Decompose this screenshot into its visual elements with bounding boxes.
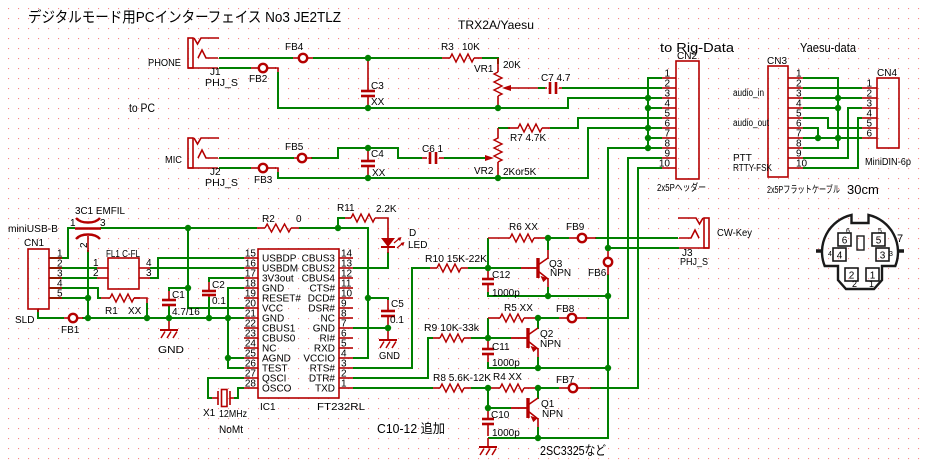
wire Q3 collector drop	[547, 240, 549, 250]
IC right pin 7 stub	[339, 327, 353, 329]
svg-text:VR1: VR1	[474, 64, 494, 75]
svg-text:1000p: 1000p	[492, 428, 520, 439]
CN2 pin 9 stub	[662, 157, 676, 159]
CN3 pin 9 stub	[788, 157, 803, 159]
wire VR2 top to R7	[498, 127, 510, 129]
CN4 pin 5 stub	[862, 127, 877, 129]
wire CN1 pin3 to FL1 pin2	[49, 277, 97, 279]
wire R8 node riser	[487, 388, 489, 408]
wire J2 tip to FB5	[219, 157, 294, 159]
wire FL1 pin3 to IC pin15	[150, 258, 244, 278]
CN4 pin 4 stub	[862, 117, 877, 119]
wire CN3 pin6 jog	[803, 128, 818, 138]
CN4 pin 6 stub	[862, 137, 877, 139]
svg-text:CN4: CN4	[877, 68, 897, 79]
IC left pin 15 stub	[244, 257, 258, 259]
IC left pin 20 stub	[244, 307, 258, 309]
wire AGND branch	[228, 357, 244, 359]
svg-text:FB2: FB2	[249, 74, 268, 85]
IC left pin 22 stub	[244, 327, 258, 329]
wire J2 sleeve to FB3	[219, 167, 251, 169]
LED D	[381, 238, 395, 247]
wire Q2 base	[488, 337, 511, 339]
connector J1 PHONE jack	[188, 38, 193, 68]
IC right pin 4 stub	[339, 357, 353, 359]
svg-text:C5: C5	[391, 299, 404, 310]
wire IC pin7 to C5 bottom	[353, 327, 388, 329]
wire IC pin1 to R8	[353, 387, 433, 389]
resistor R8	[440, 384, 464, 392]
svg-text:C2: C2	[212, 280, 225, 291]
svg-text:SLD: SLD	[15, 315, 34, 326]
IC right pin 12 stub	[339, 277, 353, 279]
wire Q3 base	[488, 267, 521, 269]
wire VR1 wiper to C7	[538, 87, 545, 89]
IC left pin 26 stub	[244, 367, 258, 369]
CN3 pin 4 stub	[788, 107, 803, 109]
svg-text:10: 10	[796, 159, 808, 170]
IC right pin 6 stub	[339, 337, 353, 339]
CN2 pin 3 stub	[662, 97, 676, 99]
capacitor C10	[482, 418, 494, 421]
junction dots	[365, 55, 371, 61]
wire R9 to Q2 base node	[471, 337, 488, 339]
svg-text:0.1: 0.1	[212, 296, 226, 307]
svg-text:J1: J1	[210, 67, 221, 78]
CN4 pin 2 stub	[862, 97, 877, 99]
IC left pin 21 stub	[244, 317, 258, 319]
svg-text:2Kor5K: 2Kor5K	[503, 167, 537, 178]
wire Q3 emitter to rail	[547, 278, 549, 288]
svg-text:J2: J2	[210, 167, 221, 178]
CN4 pin 3 stub	[862, 107, 877, 109]
ferrite bead FB4	[299, 54, 307, 62]
ground under C1	[168, 318, 170, 330]
CN2 pin 2 stub	[662, 87, 676, 89]
connector CN4 body	[877, 78, 899, 148]
CN2 pin 7 stub	[662, 137, 676, 139]
wire VR1 bottom to CN2 pin3	[564, 98, 662, 108]
potentiometer VR1	[497, 58, 499, 72]
resistor R5	[500, 314, 524, 322]
ground under C10	[487, 438, 489, 447]
connector MiniDIN-6p front view	[822, 215, 898, 289]
svg-text:IC1: IC1	[260, 402, 276, 413]
IC right pin 5 stub	[339, 347, 353, 349]
svg-text:デジタルモード用PCインターフェイス No3 JE2TLZ: デジタルモード用PCインターフェイス No3 JE2TLZ	[28, 8, 341, 26]
svg-text:C1: C1	[172, 290, 185, 301]
capacitor C12	[482, 278, 494, 281]
svg-text:FB3: FB3	[254, 175, 273, 186]
svg-text:FB1: FB1	[61, 325, 80, 336]
wire IC pin18 riser to rail and AGND TEST	[228, 288, 244, 368]
resistor R7	[518, 124, 542, 132]
CN1 SLD stub	[37, 309, 39, 312]
svg-text:FT232RL: FT232RL	[317, 402, 366, 413]
ferrite bead FB3	[259, 164, 267, 172]
svg-text:to PC: to PC	[129, 101, 155, 115]
ferrite bead FB2	[259, 64, 267, 72]
wire R1 to rail	[134, 298, 147, 304]
wire IC pin3 to R10	[353, 268, 430, 368]
svg-text:CN2: CN2	[677, 51, 697, 62]
FL1 pin2 stub	[97, 277, 108, 279]
svg-text:6: 6	[866, 129, 872, 140]
capacitor C1	[162, 299, 176, 302]
CN3 pin 1 stub	[788, 77, 803, 79]
wire Q2 emitter to rail	[537, 348, 539, 358]
IC left pin 25 stub	[244, 357, 258, 359]
svg-text:audio_in: audio_in	[733, 88, 764, 99]
wire R11 tap	[338, 218, 345, 228]
resistor R11	[351, 214, 375, 222]
wire R8 to Q1 node	[471, 387, 488, 389]
CN2 pin 1 stub	[662, 77, 676, 79]
wire Q2 collector node to FB8	[538, 317, 559, 319]
resistor R6	[510, 234, 534, 242]
svg-text:5: 5	[57, 289, 63, 300]
svg-text:0: 0	[296, 214, 302, 225]
svg-text:7: 7	[897, 233, 903, 245]
svg-text:R4 XX: R4 XX	[493, 372, 522, 383]
wire CN3 pin3 to CN4 pin2	[803, 97, 862, 99]
svg-text:PHONE: PHONE	[148, 58, 181, 69]
wire CN3 pin4 to bus	[803, 107, 838, 109]
capacitor C5	[381, 310, 395, 313]
svg-text:PHJ_S: PHJ_S	[680, 257, 708, 268]
wire C6 to VR2 wiper	[444, 157, 488, 159]
wire CN3 pin10 to CN4 pin4	[803, 118, 862, 168]
wire J1 sleeve to FB2	[219, 67, 251, 69]
svg-text:2: 2	[852, 279, 857, 289]
wire R3 to VR1	[482, 58, 498, 64]
CN2 pin 5 stub	[662, 117, 676, 119]
wire CN1 pin5 to tap	[49, 297, 88, 299]
wire Q1 collector node to FB7	[538, 387, 559, 389]
svg-text:C12: C12	[492, 270, 511, 281]
FL1 pin4 stub	[139, 267, 150, 269]
svg-text:FB9: FB9	[566, 222, 585, 233]
svg-text:PHJ_S: PHJ_S	[205, 78, 238, 89]
svg-text:GND: GND	[379, 351, 400, 362]
svg-text:RTTY-FSK: RTTY-FSK	[733, 163, 772, 174]
FL1 pin1 stub	[97, 267, 108, 269]
wire C5 top tee	[368, 298, 388, 300]
CN3 pin 8 stub	[788, 147, 803, 149]
transistor Q3	[536, 258, 539, 278]
capacitor C11	[482, 348, 494, 351]
svg-text:2SC3325など: 2SC3325など	[540, 443, 606, 458]
svg-text:R6 XX: R6 XX	[509, 222, 538, 233]
svg-text:CN3: CN3	[767, 56, 787, 67]
CN3 pin 6 stub	[788, 127, 803, 129]
svg-text:NPN: NPN	[550, 268, 571, 279]
svg-text:5: 5	[876, 236, 882, 247]
svg-text:1000p: 1000p	[492, 358, 520, 369]
wire Q1 collector drop	[537, 390, 539, 399]
connector CN2 body	[676, 61, 699, 179]
svg-text:5: 5	[878, 228, 882, 235]
svg-text:6: 6	[846, 228, 850, 235]
svg-text:C10: C10	[491, 410, 510, 421]
svg-text:D: D	[409, 228, 416, 239]
IC right pin 14 stub	[339, 257, 353, 259]
wire CN2 pin8 riser to FB6/J3	[608, 148, 662, 250]
ferrite bead FB7	[569, 384, 577, 392]
IC right pin 9 stub	[339, 307, 353, 309]
component FL1 filter body	[108, 258, 139, 289]
CN3 pin 3 stub	[788, 97, 803, 99]
wire C7 to CN2 pin2	[562, 87, 662, 89]
svg-text:C11: C11	[492, 342, 510, 353]
svg-text:R1: R1	[105, 306, 118, 317]
wire CN2 pin4 stub link	[648, 107, 662, 109]
svg-text:1: 1	[341, 379, 347, 390]
wire R7 to CN2 pin5	[550, 118, 662, 128]
IC right pin 1 stub	[339, 387, 353, 389]
CN3 pin 2 stub	[788, 87, 803, 89]
wire J1 tip to FB4	[219, 57, 293, 59]
resistor R2	[265, 224, 291, 232]
connector CN1 miniUSB-B body	[28, 249, 49, 309]
capacitor C7	[549, 82, 552, 94]
wire C1 top tee	[169, 288, 188, 291]
svg-text:Yaesu-data: Yaesu-data	[800, 40, 857, 55]
wire C1 bottom to rail	[168, 306, 170, 318]
FL1 pin3 stub	[139, 277, 150, 279]
ferrite bead FB6	[604, 258, 612, 266]
capacitor C2	[202, 290, 216, 293]
wire R2 to VCCIO riser	[299, 228, 368, 358]
wire CN3 pin7 to CN4 pin6	[803, 137, 862, 139]
wire CN3 gnd bus pins 1-8	[803, 78, 838, 148]
resistor R3	[450, 54, 474, 62]
IC left pin 16 stub	[244, 267, 258, 269]
ferrite bead FB8	[568, 314, 576, 322]
svg-text:XX: XX	[372, 168, 386, 179]
svg-text:4.7/16: 4.7/16	[172, 307, 200, 318]
svg-text:XX: XX	[128, 306, 142, 317]
svg-text:FB6: FB6	[588, 268, 607, 279]
wire ground rail to IC pin21	[82, 317, 244, 319]
wire FB6 to rails	[488, 274, 608, 438]
svg-text:TRX2A/Yaesu: TRX2A/Yaesu	[458, 18, 534, 32]
svg-text:2x5Pヘッダー: 2x5Pヘッダー	[657, 181, 706, 194]
wire J3 sleeve line	[608, 247, 679, 249]
connector CN3 body	[768, 66, 788, 177]
potentiometer VR2	[497, 128, 499, 138]
svg-text:2: 2	[93, 268, 99, 279]
resistor R9	[440, 334, 464, 342]
wire Q2 collector drop	[537, 320, 539, 329]
IC left pin 23 stub	[244, 337, 258, 339]
wire VCC riser	[188, 228, 244, 308]
wire Q3 collector node to FB9	[548, 237, 569, 239]
capacitor C4	[361, 160, 375, 163]
resistor R4	[500, 384, 524, 392]
wire CN3 pin9 to CN4 pin3	[803, 108, 862, 158]
svg-text:R9 10K-33k: R9 10K-33k	[424, 323, 480, 334]
svg-text:2: 2	[79, 242, 90, 248]
svg-text:VR2: VR2	[474, 166, 494, 177]
svg-text:to Rig-Data: to Rig-Data	[660, 40, 735, 55]
IC left pin 19 stub	[244, 297, 258, 299]
wire SLD to FB1	[38, 309, 64, 318]
wire CN2 pin7 stub link	[648, 137, 662, 139]
crystal X1	[212, 397, 218, 399]
IC U1 FT232RL body	[258, 249, 339, 398]
IC right pin 3 stub	[339, 367, 353, 369]
svg-text:30cm: 30cm	[847, 182, 879, 197]
svg-text:12MHz: 12MHz	[219, 409, 247, 420]
wire FB2 to C3 bottom node	[275, 68, 278, 73]
wire R6 left riser	[487, 238, 489, 268]
svg-text:FB5: FB5	[285, 142, 304, 153]
svg-text:R11: R11	[337, 203, 355, 214]
CN1 pin 4 stub	[49, 287, 62, 289]
CN1 pin 1 stub	[49, 257, 62, 259]
CN2 pin 6 stub	[662, 127, 676, 129]
wire CN1 pin4 to R1	[49, 288, 101, 298]
wire FL1 pin4 to IC pin16	[150, 267, 244, 269]
svg-text:3: 3	[880, 251, 886, 262]
svg-text:FB4: FB4	[285, 42, 304, 53]
svg-text:1: 1	[70, 218, 76, 229]
IC right pin 10 stub	[339, 297, 353, 299]
svg-text:X1: X1	[203, 408, 216, 419]
svg-text:4: 4	[837, 251, 843, 262]
svg-text:3: 3	[100, 218, 106, 229]
capacitor C3	[361, 90, 375, 93]
wire R10 to Q3 base node	[468, 267, 488, 269]
wire EMI filter tap down	[87, 250, 89, 318]
CN1 pin 5 stub	[49, 297, 62, 299]
wire X1 left to IC pin27	[208, 378, 244, 398]
svg-text:C10-12 追加: C10-12 追加	[377, 421, 445, 436]
svg-text:4: 4	[828, 251, 832, 258]
svg-text:1000p: 1000p	[492, 288, 520, 299]
IC left pin 28 stub	[244, 387, 258, 389]
wire C2 bottom to rail	[208, 297, 210, 318]
IC right pin 8 stub	[339, 317, 353, 319]
ferrite bead FB1	[69, 314, 77, 322]
CN3 pin 5 stub	[788, 117, 803, 119]
svg-text:6: 6	[842, 236, 848, 247]
CN3 pin 10 stub	[788, 167, 803, 169]
transistor Q2	[526, 328, 529, 348]
IC right pin 2 stub	[339, 377, 353, 379]
resistor R10	[437, 264, 461, 272]
wire LED cathode to IC pin13	[353, 252, 388, 268]
ground under C5	[387, 330, 389, 340]
svg-text:TXD: TXD	[315, 384, 335, 395]
IC left pin 24 stub	[244, 347, 258, 349]
svg-text:NPN: NPN	[540, 339, 561, 350]
wire CN2 ground bus	[648, 78, 662, 148]
wire CN1 pin1 to EMI filter	[49, 228, 75, 258]
svg-text:FB7: FB7	[556, 375, 575, 386]
svg-text:GND: GND	[158, 345, 184, 356]
svg-text:1: 1	[869, 279, 874, 289]
svg-text:C3: C3	[371, 81, 384, 92]
wire Q1 emitter to rail	[537, 418, 539, 428]
EMI filter 3C1	[76, 218, 100, 223]
svg-text:3C1 EMFIL: 3C1 EMFIL	[75, 206, 125, 217]
CN1 pin 2 stub	[49, 267, 62, 269]
svg-text:MiniDIN-6p: MiniDIN-6p	[865, 157, 911, 168]
wire X1 right to IC pin28	[234, 388, 244, 398]
wire FB5 jog over C4 to C6	[311, 148, 422, 158]
svg-text:audio_out: audio_out	[733, 118, 769, 129]
3C1 pin number 2	[79, 242, 90, 248]
wire FB8 to CN2 pin9	[586, 158, 662, 318]
svg-text:0.1: 0.1	[390, 315, 404, 326]
svg-text:R2: R2	[262, 214, 275, 225]
wire IC pin2 to R9	[353, 338, 433, 378]
svg-text:C7 4.7: C7 4.7	[541, 73, 571, 84]
svg-text:MIC: MIC	[165, 155, 182, 166]
svg-text:FL1 C-FL: FL1 C-FL	[106, 249, 140, 260]
svg-text:NPN: NPN	[542, 409, 563, 420]
wire J3 ring line	[604, 237, 678, 239]
wire FB4 to R3	[313, 57, 442, 59]
svg-text:PHJ_S: PHJ_S	[205, 178, 238, 189]
wire CN3 pin5 to CN4 pin5	[803, 118, 862, 128]
svg-text:20K: 20K	[503, 60, 521, 71]
svg-text:10K: 10K	[462, 42, 480, 53]
wire R5 left riser	[487, 318, 489, 338]
svg-text:LED: LED	[408, 240, 427, 251]
wire C2 top from IC pin17	[209, 278, 244, 282]
CN2 pin 4 stub	[662, 107, 676, 109]
svg-text:2x5Pフラットケーブル: 2x5Pフラットケーブル	[767, 183, 840, 196]
ferrite bead FB9	[578, 234, 586, 242]
connector J2 MIC jack	[188, 138, 193, 168]
svg-text:NoMt: NoMt	[219, 424, 243, 436]
wire FB3 to ground rail	[275, 168, 278, 173]
wire CN1 pin2 to FL1 pin1	[49, 267, 97, 269]
resistor R1	[110, 294, 134, 302]
svg-text:R7 4.7K: R7 4.7K	[510, 133, 546, 144]
connector J3 CW-Key jack	[704, 218, 709, 248]
svg-text:3: 3	[889, 251, 893, 258]
svg-text:miniUSB-B: miniUSB-B	[8, 224, 58, 235]
svg-text:3: 3	[146, 268, 152, 279]
IC right pin 13 stub	[339, 267, 353, 269]
IC left pin 17 stub	[244, 277, 258, 279]
wire FB7 to CN2 pin10	[590, 168, 662, 388]
IC left pin 27 stub	[244, 377, 258, 379]
wire FB9 to J3 tip	[595, 237, 654, 239]
svg-text:XX: XX	[371, 97, 385, 108]
CN4 pin 1 stub	[862, 87, 877, 89]
IC left pin 18 stub	[244, 287, 258, 289]
CN2 pin 8 stub	[662, 147, 676, 149]
svg-text:C6 1: C6 1	[422, 144, 444, 155]
svg-text:C4: C4	[371, 149, 384, 160]
svg-text:R10 15K-22K: R10 15K-22K	[425, 254, 487, 265]
IC right pin 11 stub	[339, 287, 353, 289]
svg-text:10: 10	[659, 159, 671, 170]
svg-text:CW-Key: CW-Key	[717, 228, 752, 239]
svg-text:FB8: FB8	[556, 304, 575, 315]
wire EMI filter to R2	[100, 227, 257, 229]
wire CN3 pin2 to CN4 pin1	[803, 87, 862, 89]
capacitor C6	[429, 152, 432, 164]
ferrite bead FB5	[298, 154, 306, 162]
wire Q1 base	[488, 407, 511, 409]
svg-text:2.2K: 2.2K	[376, 204, 397, 215]
